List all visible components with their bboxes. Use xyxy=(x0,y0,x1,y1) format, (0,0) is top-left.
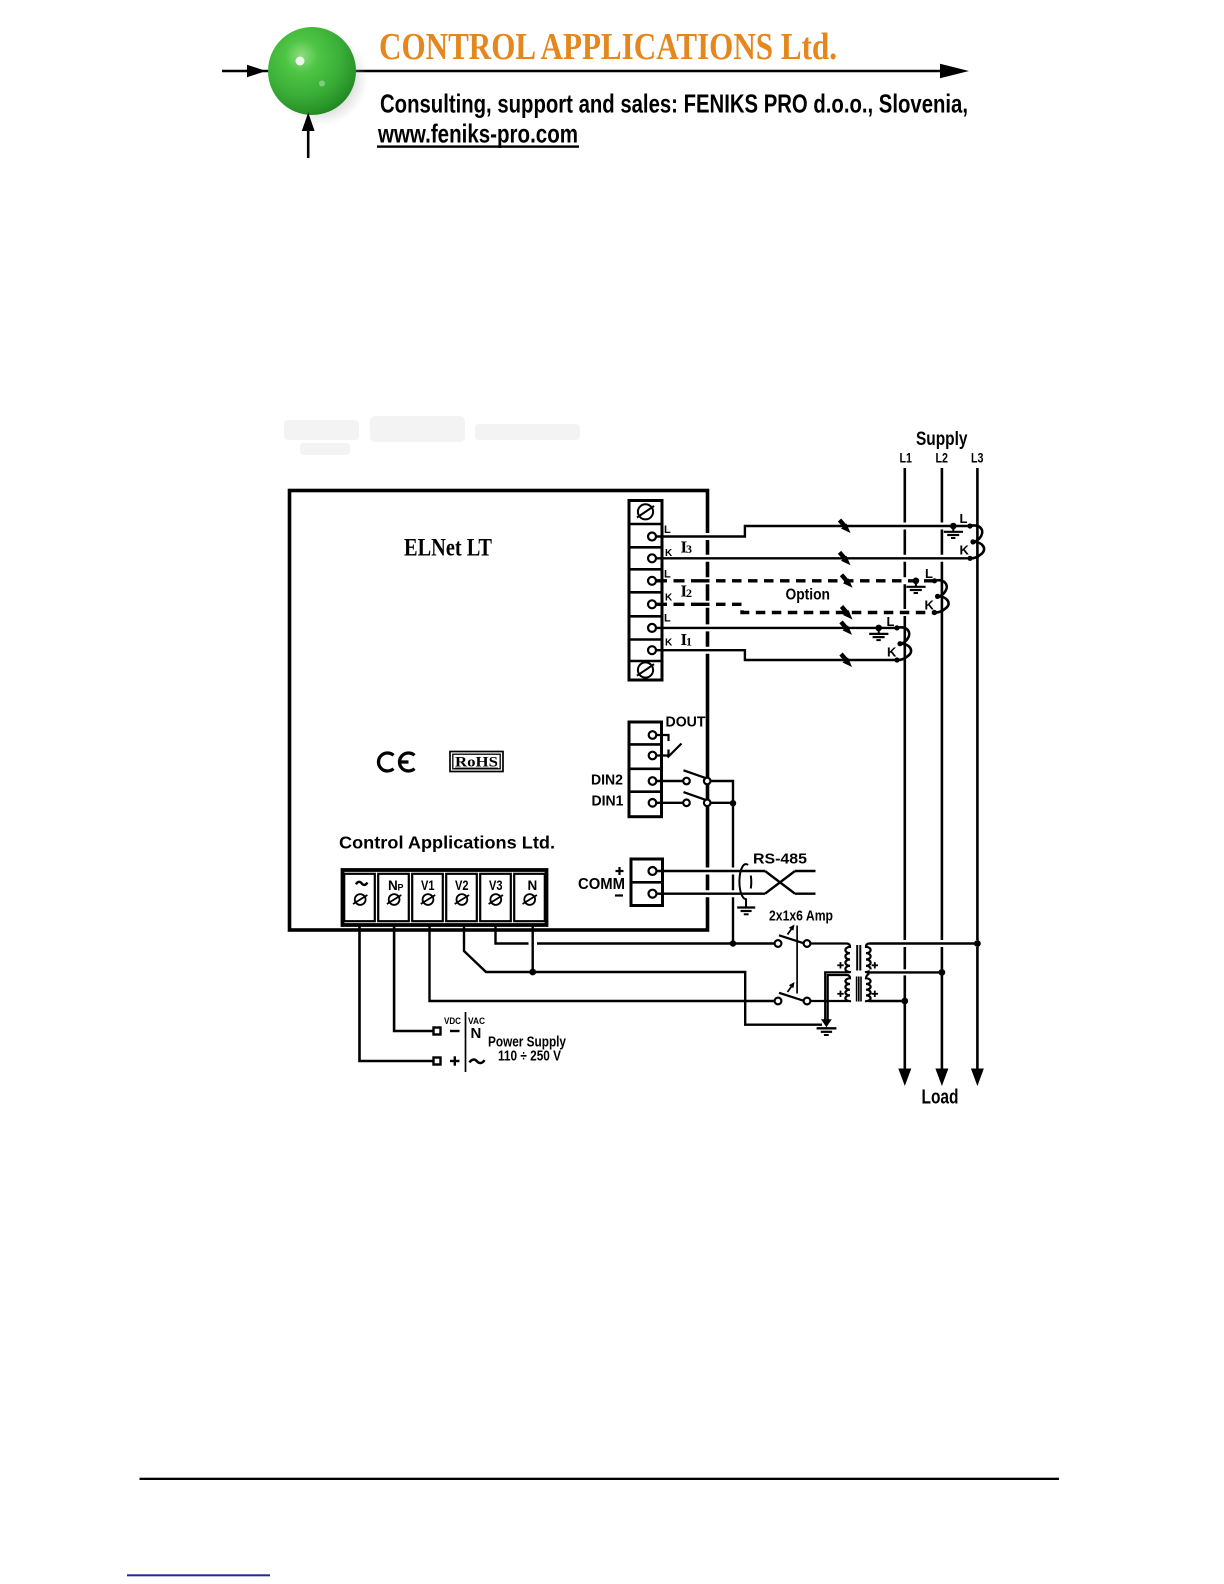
svg-text:V2: V2 xyxy=(455,878,469,893)
svg-text:V3: V3 xyxy=(489,878,503,893)
power supply minus terminal square xyxy=(434,1028,441,1035)
svg-text:Control Applications Ltd.: Control Applications Ltd. xyxy=(339,833,555,853)
junction DIN vertical on V3 wire xyxy=(730,940,736,946)
logo green sphere xyxy=(268,27,368,126)
DOUT DIN terminal strip xyxy=(629,722,662,817)
svg-text:1: 1 xyxy=(686,635,692,649)
CE mark xyxy=(378,753,414,771)
secondary wire to L2 xyxy=(870,969,942,975)
secondary wire to L3 xyxy=(870,940,978,947)
power supply plus terminal square xyxy=(434,1058,441,1065)
COMM wire minus xyxy=(657,890,766,897)
wire I2 K dashed xyxy=(656,604,935,612)
DIN vertical wire xyxy=(732,803,734,944)
supply line L1 xyxy=(903,468,906,1069)
svg-text:COMM: COMM xyxy=(578,876,625,893)
svg-text:DOUT: DOUT xyxy=(666,715,706,731)
svg-text:CONTROL APPLICATIONS Ltd.: CONTROL APPLICATIONS Ltd. xyxy=(379,26,837,68)
wire V3 to fuse xyxy=(496,925,775,944)
label plus xyxy=(616,867,624,875)
wire I3 K xyxy=(656,557,970,559)
fuse F1 xyxy=(775,925,811,947)
svg-text:DIN2: DIN2 xyxy=(591,773,623,789)
svg-text:V1: V1 xyxy=(421,878,435,893)
current terminal strip xyxy=(629,501,662,681)
fuse F2 xyxy=(775,982,811,1004)
label minus power xyxy=(450,1030,460,1032)
wire V1 to fuse xyxy=(430,925,775,1001)
fuse gang link xyxy=(796,926,798,994)
PT1 primary coil and return xyxy=(810,944,850,1022)
svg-text:L3: L3 xyxy=(971,451,984,466)
current direction dart I2 L xyxy=(842,575,853,588)
current direction dart I3 L xyxy=(840,520,851,533)
label minus xyxy=(615,894,623,896)
svg-text:Option: Option xyxy=(786,587,831,604)
DIN2 switch xyxy=(657,770,734,802)
svg-text:L: L xyxy=(664,569,671,581)
polarity marks xyxy=(837,962,878,997)
wire I1 L xyxy=(656,627,700,629)
svg-text:K: K xyxy=(887,645,897,660)
svg-text:K: K xyxy=(665,638,673,649)
DIN1 switch xyxy=(657,792,734,806)
PT1 secondary coil xyxy=(866,944,871,973)
device box ELNet LT xyxy=(290,491,708,931)
junction secondary L1 xyxy=(901,998,908,1005)
footer blue link line xyxy=(127,1574,270,1576)
logo vertical arrow xyxy=(302,113,315,159)
CT coil I3 xyxy=(967,523,984,561)
svg-text:L: L xyxy=(925,566,933,581)
COMM wire plus xyxy=(657,868,766,875)
wire N to V2 junction xyxy=(532,925,534,972)
current direction dart I3 K xyxy=(840,552,851,565)
svg-text:Load: Load xyxy=(922,1087,959,1109)
shield ground xyxy=(737,899,755,915)
svg-text:2x1x6 Amp: 2x1x6 Amp xyxy=(769,908,833,925)
PT2 core xyxy=(857,977,861,1002)
load arrow L1 xyxy=(898,1069,911,1087)
label plus power xyxy=(450,1056,460,1065)
label tilde cell xyxy=(356,882,367,885)
svg-text:Supply: Supply xyxy=(916,429,968,450)
label tilde power xyxy=(470,1060,485,1063)
supply line L2 xyxy=(941,468,944,1069)
RoHS label box xyxy=(450,752,503,772)
svg-text:N: N xyxy=(471,1025,482,1042)
wire V2 to ground bus xyxy=(464,925,822,1025)
screw top xyxy=(637,504,654,519)
svg-text:Consulting, support and sales:: Consulting, support and sales: FENIKS PR… xyxy=(380,89,968,119)
RS-485 twisted pair crossover xyxy=(765,871,816,894)
power supply divider line xyxy=(465,1012,467,1072)
svg-text:N: N xyxy=(528,878,538,893)
junction N-V2 xyxy=(529,969,536,976)
svg-text:L2: L2 xyxy=(936,451,949,466)
footer rule xyxy=(140,1478,1060,1480)
current direction dart I1 L xyxy=(841,622,852,635)
ground at CT1 xyxy=(869,625,888,640)
svg-text:P: P xyxy=(398,883,404,893)
DOUT relay contact xyxy=(657,735,682,758)
junction DIN1 xyxy=(730,800,736,806)
header arrow line xyxy=(222,64,969,79)
screw bottom xyxy=(637,662,654,677)
svg-text:L: L xyxy=(664,613,671,625)
svg-text:L1: L1 xyxy=(900,451,913,466)
RS-485 shield loop xyxy=(739,864,751,899)
terminal circles current inputs xyxy=(648,533,656,655)
svg-text:L: L xyxy=(887,614,895,629)
wire AC terminal to plus xyxy=(360,925,434,1061)
svg-text:RS-485: RS-485 xyxy=(753,851,807,868)
ground PT xyxy=(817,1019,837,1035)
load arrow L3 xyxy=(971,1069,984,1087)
svg-text:K: K xyxy=(960,543,970,558)
ground at CT3 xyxy=(944,523,963,538)
ground at CT2 xyxy=(906,578,925,594)
svg-text:110 ÷ 250 V: 110 ÷ 250 V xyxy=(498,1048,561,1065)
screws voltage block xyxy=(353,894,537,905)
svg-text:L: L xyxy=(664,524,671,536)
svg-text:K: K xyxy=(925,598,935,613)
PT1 core xyxy=(857,945,860,971)
current direction dart I1 K xyxy=(841,654,852,667)
terminal circles DOUT DIN xyxy=(649,731,657,806)
wire I3 L xyxy=(656,526,970,537)
wire Np terminal to minus xyxy=(394,925,433,1031)
CT coil I2 xyxy=(932,578,949,615)
junction secondary L2 xyxy=(939,969,946,976)
PT2 primary coil and return xyxy=(810,975,850,1022)
supply line L3 xyxy=(976,468,979,1069)
svg-text:K: K xyxy=(665,548,673,559)
svg-text:VDC: VDC xyxy=(444,1016,461,1027)
load arrow L2 xyxy=(935,1069,948,1087)
current direction dart I2 K xyxy=(842,607,853,620)
svg-text:3: 3 xyxy=(686,542,692,556)
svg-text:www.feniks-pro.com: www.feniks-pro.com xyxy=(377,119,578,149)
ghost smudges xyxy=(284,416,580,455)
svg-text:ELNet LT: ELNet LT xyxy=(404,535,492,562)
terminal circles COMM xyxy=(649,867,657,898)
svg-text:K: K xyxy=(665,593,673,604)
svg-text:DIN1: DIN1 xyxy=(592,794,624,810)
PT2 secondary coil xyxy=(866,973,872,1002)
CT coil I1 xyxy=(894,625,911,662)
svg-text:N: N xyxy=(388,878,398,893)
svg-text:2: 2 xyxy=(686,586,692,600)
junction secondary L3 xyxy=(974,940,981,947)
secondary wire to L1 xyxy=(870,1000,905,1002)
voltage terminal block xyxy=(343,870,547,925)
wire I1 K xyxy=(656,649,700,651)
COMM terminal block xyxy=(631,859,663,906)
wire I2 L dashed xyxy=(656,579,935,582)
svg-text:L: L xyxy=(960,511,968,526)
